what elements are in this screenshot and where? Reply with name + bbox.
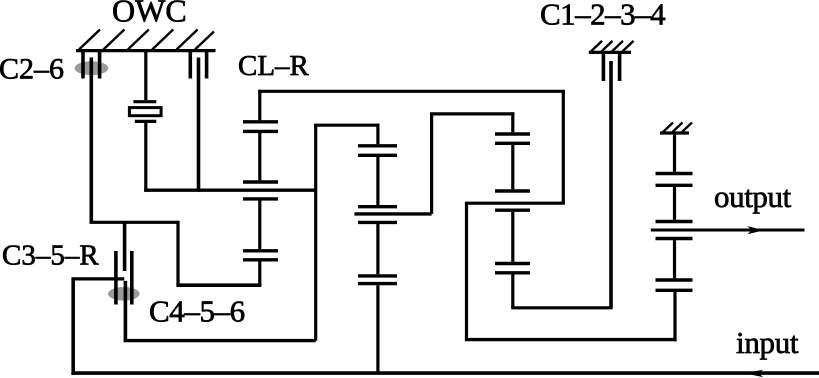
wire: column x512 lower vertical: [511, 212, 514, 262]
label C1-2-3-4: [540, 0, 666, 32]
wire: node vertical x563: [562, 91, 565, 203]
clutch output column lower pair plate 1: [656, 278, 693, 281]
brake at case (right of OWC) outer plate right: [205, 51, 209, 79]
label CL-R: [238, 50, 310, 82]
clutch middle column lower pair plate 1: [358, 274, 397, 277]
wire: bottom member y340 from x466 to output column: [465, 338, 677, 341]
wire: C3-5-R lower middle plate / shaft down: [124, 281, 128, 341]
svg-text:input: input: [736, 325, 799, 360]
clutch C3-5-R highlight ellipse: [108, 287, 140, 301]
wire: node vertical x466: [465, 203, 468, 339]
wire: input branch vertical x73: [71, 277, 75, 375]
clutch CL-R upper pair plate 1: [243, 120, 278, 123]
ground case top-left hatching: [79, 30, 214, 50]
label C4-5-6: [149, 294, 245, 329]
ground case C1-2-3-4 bar: [589, 51, 631, 54]
wire: middle column mid vertical: [376, 157, 379, 205]
ground case output column bar: [660, 131, 689, 134]
wire: input line y373: [71, 371, 819, 375]
one-way clutch OWC box: [129, 108, 161, 116]
svg-text:CL–R: CL–R: [238, 50, 310, 82]
one-way clutch OWC link to case: [144, 51, 147, 101]
svg-text:C1–2–3–4: C1–2–3–4: [540, 0, 666, 32]
clutch column x512 lower pair plate 1: [495, 262, 530, 265]
wire: CL-R column bottom vertical: [258, 261, 261, 285]
wire: CL-R column top to node x563: [258, 90, 565, 93]
wire: output column lower vertical: [673, 240, 676, 278]
wire: node vertical x315: [314, 125, 317, 340]
clutch middle column upper pair plate 1: [358, 144, 397, 147]
label OWC: [112, 0, 187, 29]
clutch column x512 mid plate upper: [495, 189, 530, 192]
svg-text:C2–6: C2–6: [0, 52, 64, 85]
wire: middle column bottom vertical to input line: [376, 285, 379, 373]
clutch CL-R lower pair plate 2: [243, 258, 278, 261]
clutch column x512 mid plate lower: [495, 208, 530, 211]
label C3-5-R: [2, 240, 99, 272]
wire: CL-R column upper vertical: [258, 90, 261, 121]
clutch middle column mid plate upper: [358, 205, 397, 208]
wire: middle column top vertical: [376, 124, 379, 145]
brake C2-6 outer plate left: [81, 51, 85, 79]
label output: [714, 179, 792, 214]
clutch CL-R lower pair plate 1: [243, 249, 278, 252]
clutch output column lower pair plate 2: [656, 289, 693, 292]
brake C1-2-3-4 inner plate / shaft down: [609, 61, 613, 308]
ground case output column hatching: [663, 123, 692, 133]
arrowhead input: [745, 370, 764, 378]
one-way clutch OWC top bar: [133, 100, 156, 103]
clutch output column upper pair plate 1: [656, 172, 693, 175]
clutch C3-5-R outer plate left: [114, 251, 118, 305]
clutch column x512 upper pair plate 2: [495, 142, 530, 145]
wire: middle member y214: [354, 212, 431, 215]
wire: output column link from case: [673, 133, 676, 172]
wire: shaft from OWC along y190 to node x315: [144, 188, 316, 191]
wire: output column mid vertical: [673, 187, 676, 220]
wire: y125 link to middle column: [314, 124, 379, 127]
brake C2-6 outer plate right: [98, 51, 102, 79]
clutch middle column upper pair plate 2: [358, 154, 397, 157]
one-way clutch OWC shaft down: [144, 123, 147, 192]
clutch output column upper pair plate 2: [656, 184, 693, 187]
clutch CL-R mid plate lower: [243, 197, 278, 200]
brake C1-2-3-4 outer plate left: [602, 52, 606, 81]
wire: column x512 top vertical: [511, 112, 514, 132]
svg-text:C4–5–6: C4–5–6: [149, 294, 245, 329]
ground case C1-2-3-4 hatching: [591, 41, 634, 52]
svg-text:output: output: [714, 179, 792, 214]
wire: input branch to C3-5-R at y279: [73, 277, 124, 280]
wire: bottom shaft y340 to node x315: [124, 339, 316, 342]
wire: CL-R column mid vertical: [258, 133, 261, 180]
clutch middle column mid plate lower: [358, 221, 397, 224]
svg-text:C3–5–R: C3–5–R: [2, 240, 99, 272]
wire: output column bottom vertical to y340 member: [673, 292, 676, 341]
brake C2-6 inner plate / shaft down: [90, 58, 94, 223]
brake C1-2-3-4 outer plate right: [618, 52, 622, 81]
clutch middle column lower pair plate 2: [358, 282, 397, 285]
wire: member y203 from x466 to x563: [465, 202, 565, 205]
wire: step vertical x178: [176, 221, 179, 286]
ground case top-left bar: [76, 49, 216, 52]
wire: column x512 mid vertical: [511, 145, 514, 189]
brake C2-6 highlight ellipse: [75, 61, 109, 75]
one-way clutch OWC bottom bar: [135, 120, 157, 123]
clutch CL-R upper pair plate 2: [243, 130, 278, 133]
wire: output shaft y230 with arrow: [651, 229, 805, 232]
clutch C3-5-R outer plate right: [130, 251, 134, 305]
clutch column x512 upper pair plate 1: [495, 132, 530, 135]
wire: middle column lower vertical: [376, 224, 379, 274]
wire: node vertical x431: [430, 114, 433, 214]
wire: y308 link to C1-2-3-4 shaft: [511, 306, 612, 309]
label input: [736, 325, 799, 360]
wire: step to CL-R column bottom at y285: [176, 283, 261, 287]
clutch C3-5-R upper middle plate: [123, 222, 127, 271]
clutch output column mid plate lower: [656, 237, 693, 240]
wire: column x512 bottom vertical: [511, 274, 514, 307]
arrowhead output: [747, 226, 764, 234]
clutch CL-R mid plate upper: [243, 180, 278, 183]
brake at case (right of OWC) inner plate / shaft down: [197, 58, 201, 192]
wire: C2-6 shaft step right at y222: [90, 221, 179, 224]
svg-text:OWC: OWC: [112, 0, 187, 29]
label C2-6: [0, 52, 64, 85]
brake at case (right of OWC) outer plate left: [189, 51, 193, 79]
wire: CL-R column lower vertical: [258, 201, 261, 250]
clutch column x512 lower pair plate 2: [495, 271, 530, 274]
clutch output column mid plate upper: [656, 220, 693, 223]
wire: y114 link to column x512: [430, 112, 514, 115]
